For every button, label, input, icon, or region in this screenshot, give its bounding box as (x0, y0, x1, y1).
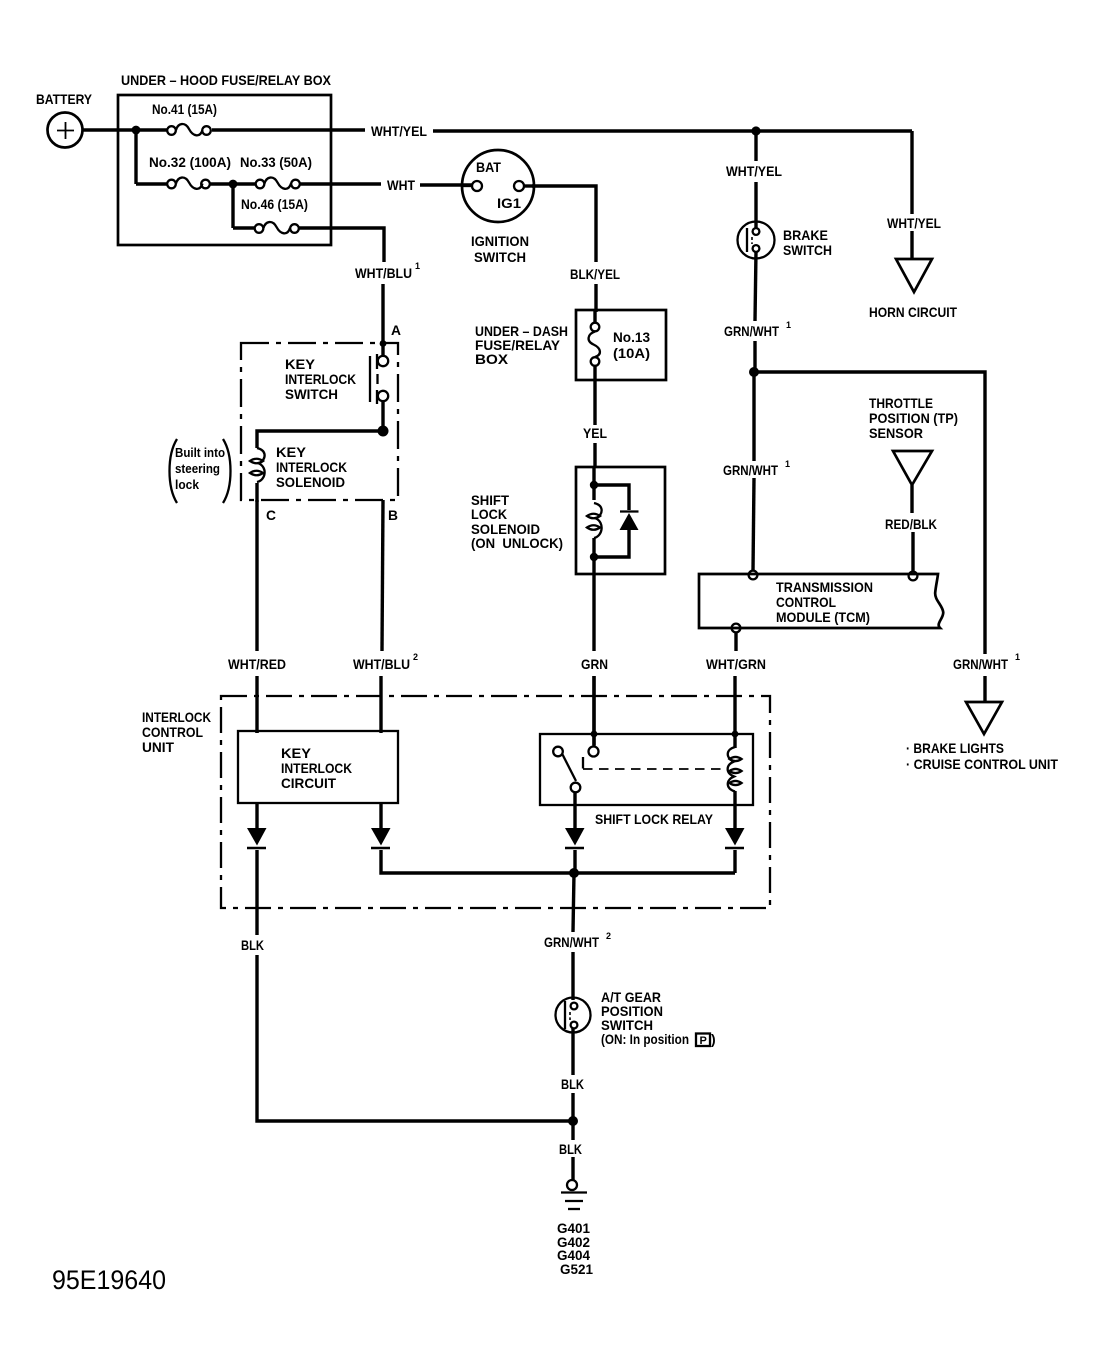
svg-text:INTERLOCK: INTERLOCK (281, 760, 352, 776)
svg-text:No.32 (100A): No.32 (100A) (149, 154, 231, 170)
key interlock solenoid coil (250, 444, 347, 502)
shift lock solenoid box (471, 467, 665, 574)
wire GRN/WHT 1 (brake switch down) (755, 251, 756, 321)
fuse No.13 (10A) (589, 310, 651, 366)
svg-text:BATTERY: BATTERY (36, 91, 93, 107)
svg-text:CIRCUIT: CIRCUIT (281, 775, 336, 791)
svg-text:· BRAKE LIGHTS: · BRAKE LIGHTS (906, 740, 1004, 756)
diode D4 (relay switch leg) (565, 828, 585, 873)
svg-text:P: P (700, 1035, 707, 1047)
transmission control module (TCM) (699, 571, 943, 633)
svg-text:BOX: BOX (475, 351, 509, 367)
svg-text:1: 1 (786, 320, 791, 330)
wire WHT/BLU 2 (pin B down) (382, 500, 383, 651)
svg-text:TRANSMISSION: TRANSMISSION (776, 579, 873, 595)
svg-text:THROTTLE: THROTTLE (869, 395, 933, 411)
wire GRN into relay (592, 676, 595, 745)
svg-text:MODULE (TCM): MODULE (TCM) (776, 609, 870, 625)
wire to key interlock solenoid (257, 431, 383, 448)
battery B1 (36, 91, 93, 148)
svg-text:A: A (391, 322, 401, 338)
wire WHT/BLU (fuse 46 to key interlock switch pin A) (299, 228, 384, 262)
wire WHT/YEL to brake switch (754, 131, 757, 161)
wire WHT/YEL (fuse 41 output) (212, 128, 365, 131)
svg-text:SOLENOID: SOLENOID (276, 474, 345, 490)
svg-text:WHT/BLU: WHT/BLU (353, 656, 410, 672)
svg-text:WHT/RED: WHT/RED (228, 656, 286, 672)
svg-text:GRN/WHT: GRN/WHT (544, 934, 599, 950)
wire RED/BLK (910, 485, 913, 513)
diode D1 (shift lock solenoid clamp) (594, 485, 639, 557)
key interlock switch (285, 340, 388, 434)
svg-text:BLK: BLK (241, 937, 264, 953)
svg-text:INTERLOCK: INTERLOCK (142, 709, 211, 725)
wire WHT/YEL to horn circuit (910, 131, 913, 214)
node: GRN/WHT 2 junction (569, 868, 579, 878)
svg-text:SENSOR: SENSOR (869, 425, 923, 441)
svg-text:RED/BLK: RED/BLK (885, 516, 937, 532)
svg-text:G521: G521 (560, 1261, 593, 1277)
svg-text:GRN/WHT: GRN/WHT (723, 462, 778, 478)
fuse No.41 (15A) (136, 101, 217, 135)
svg-text:CONTROL: CONTROL (142, 724, 203, 740)
wires into key interlock circuit (255, 731, 258, 733)
node: WHT/YEL brake switch tap (751, 126, 760, 135)
fuse No.46 (15A) (233, 182, 308, 233)
svg-text:C: C (266, 507, 276, 523)
svg-text:UNIT: UNIT (142, 739, 174, 755)
svg-text:B: B (388, 507, 398, 523)
svg-text:1: 1 (415, 261, 420, 271)
svg-text:(10A): (10A) (613, 345, 650, 361)
wire BLK below A/T switch (571, 1028, 574, 1075)
svg-text:CONTROL: CONTROL (776, 594, 836, 610)
throttle position (TP) sensor (869, 395, 958, 485)
svg-text:SWITCH: SWITCH (474, 249, 526, 265)
wire GRN/WHT 1 down to TCM (752, 372, 755, 461)
key interlock circuit box (238, 731, 398, 803)
svg-text:(ON UNLOCK): (ON UNLOCK) (471, 535, 563, 551)
shift lock relay coil (728, 731, 742, 792)
svg-text:BAT: BAT (476, 159, 501, 175)
wire WHT/YEL main horizontal (433, 129, 912, 132)
svg-text:): ) (711, 1031, 716, 1047)
svg-text:lock: lock (175, 477, 200, 492)
svg-text:No.41 (15A): No.41 (15A) (152, 101, 217, 117)
ignition switch (462, 150, 534, 265)
svg-text:95E19640: 95E19640 (52, 1265, 166, 1295)
svg-text:GRN/WHT: GRN/WHT (724, 323, 779, 339)
svg-text:No.46 (15A): No.46 (15A) (241, 196, 308, 212)
svg-text:UNDER – HOOD FUSE/RELAY BOX: UNDER – HOOD FUSE/RELAY BOX (121, 72, 332, 88)
node: GRN/WHT junction (749, 367, 759, 377)
svg-text:1: 1 (1015, 652, 1020, 662)
svg-text:2: 2 (413, 652, 418, 662)
fuse No.33 (50A) (233, 154, 312, 189)
A/T gear position switch (556, 989, 716, 1047)
wire battery to fuse box (82, 128, 136, 131)
built into steering lock note (170, 439, 231, 503)
svg-text:KEY: KEY (285, 356, 316, 372)
svg-text:BRAKE: BRAKE (783, 227, 828, 243)
svg-text:WHT/YEL: WHT/YEL (371, 123, 427, 139)
svg-text:(ON: In position: (ON: In position (601, 1031, 689, 1047)
wire GRN/WHT to brake lights branch (754, 372, 985, 654)
wire YEL (593, 366, 596, 425)
under-dash fuse/relay box (475, 310, 666, 380)
svg-text:IGNITION: IGNITION (471, 233, 529, 249)
svg-text:INTERLOCK: INTERLOCK (276, 459, 347, 475)
svg-text:INTERLOCK: INTERLOCK (285, 371, 356, 387)
wire GRN/WHT 2 down (573, 873, 574, 932)
svg-text:BLK: BLK (559, 1141, 582, 1157)
svg-text:KEY: KEY (281, 745, 312, 761)
svg-text:2: 2 (606, 931, 611, 941)
key interlock switch/solenoid dash-dot box (241, 343, 398, 500)
ground G401/G402/G404/G521 (557, 1180, 593, 1277)
wire WHT to ignition switch (300, 182, 381, 185)
wire WHT/RED (pin C down) (255, 500, 258, 651)
svg-text:WHT/YEL: WHT/YEL (887, 215, 941, 231)
svg-text:1: 1 (785, 459, 790, 469)
svg-text:SWITCH: SWITCH (783, 242, 832, 258)
svg-text:BLK/YEL: BLK/YEL (570, 266, 620, 282)
fuse No.32 (100A) (136, 154, 231, 189)
svg-text:YEL: YEL (583, 425, 607, 441)
wire relay switch to diode (573, 793, 576, 828)
interlock control unit label (142, 709, 211, 755)
node: fuse 33/46 junction (229, 180, 238, 189)
svg-text:steering: steering (175, 461, 220, 476)
svg-text:HORN CIRCUIT: HORN CIRCUIT (869, 304, 957, 320)
svg-text:BLK: BLK (561, 1076, 584, 1092)
svg-text:SHIFT LOCK RELAY: SHIFT LOCK RELAY (595, 811, 714, 827)
wire BLK/YEL (IG1 to under-dash fuse box) (532, 186, 596, 262)
wire BLK to ground (571, 1121, 574, 1140)
svg-text:GRN: GRN (581, 656, 608, 672)
diode D5 (relay coil leg) (725, 828, 745, 873)
arrow to brake lights / cruise control (906, 702, 1058, 772)
shift lock relay contacts (553, 747, 727, 793)
wire GRN (592, 574, 595, 651)
shift lock solenoid coil (587, 467, 602, 574)
under-hood fuse/relay box (118, 72, 332, 245)
wire relay coil to diode (733, 791, 736, 828)
interlock control unit dash-dot box (221, 696, 770, 908)
svg-text:SWITCH: SWITCH (285, 386, 338, 402)
svg-text:WHT/BLU: WHT/BLU (355, 265, 412, 281)
shift lock relay box (540, 734, 753, 827)
node B junction (378, 426, 389, 437)
svg-text:WHT/GRN: WHT/GRN (706, 656, 766, 672)
svg-text:POSITION (TP): POSITION (TP) (869, 410, 958, 426)
svg-text:No.33 (50A): No.33 (50A) (240, 154, 312, 170)
wire battery bus down (134, 128, 137, 184)
node: battery feed junction (132, 126, 141, 135)
diode D2 (WHT/RED leg) (247, 828, 267, 935)
svg-text:No.13: No.13 (613, 329, 650, 345)
svg-text:WHT/YEL: WHT/YEL (726, 163, 782, 179)
svg-text:GRN/WHT: GRN/WHT (953, 656, 1008, 672)
svg-text:KEY: KEY (276, 444, 307, 460)
svg-text:· CRUISE CONTROL UNIT: · CRUISE CONTROL UNIT (906, 756, 1058, 772)
wire WHT/GRN (TCM to shift lock relay coil) (734, 633, 737, 651)
svg-text:WHT: WHT (387, 177, 415, 193)
brake switch (738, 222, 833, 259)
node: ground junction (568, 1116, 578, 1126)
svg-text:IG1: IG1 (497, 195, 521, 211)
diode D3 (WHT/BLU leg) (371, 828, 735, 873)
arrow to horn circuit (869, 259, 957, 320)
svg-text:LOCK: LOCK (471, 506, 507, 522)
svg-text:Built into: Built into (175, 445, 225, 460)
